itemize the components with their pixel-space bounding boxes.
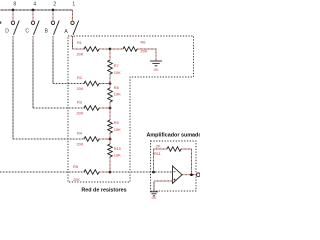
wire R9 leads bbox=[109, 108, 111, 139]
node 5 summing bbox=[109, 171, 112, 174]
node bus junction D bbox=[12, 9, 15, 12]
svg-text:20K: 20K bbox=[77, 111, 84, 116]
resistor R11 bbox=[167, 147, 181, 152]
wire R4 to node 4 bbox=[99, 138, 110, 140]
node bus junction C bbox=[32, 9, 35, 12]
svg-text:R1: R1 bbox=[77, 40, 82, 45]
wire bus to switch C bbox=[32, 10, 34, 21]
switch C bbox=[31, 21, 39, 35]
wire switch D down to row R4 bbox=[13, 36, 85, 139]
terminal output bbox=[197, 173, 201, 177]
svg-text:10K: 10K bbox=[114, 127, 121, 132]
node output bbox=[190, 173, 193, 176]
wire summing node to op-amp bbox=[110, 171, 173, 173]
wire feedback right bbox=[181, 149, 192, 175]
wire op-amp output bbox=[182, 174, 197, 176]
wire bus to switch D bbox=[12, 10, 14, 21]
enclosure Red de resistores bbox=[68, 36, 194, 182]
wire bus to switch B bbox=[52, 10, 54, 21]
svg-text:Amplificador sumador: Amplificador sumador bbox=[147, 133, 201, 139]
wire node1 to R6 bbox=[110, 48, 123, 50]
resistor R3 bbox=[84, 106, 99, 111]
svg-text:R6: R6 bbox=[141, 40, 146, 45]
svg-text:R8: R8 bbox=[114, 85, 119, 90]
wire R3 to node 3 bbox=[99, 107, 110, 109]
svg-text:10K: 10K bbox=[114, 92, 121, 97]
svg-text:D: D bbox=[5, 28, 9, 34]
enclosure Amplificador sumador bbox=[151, 141, 197, 191]
svg-text:R10: R10 bbox=[114, 146, 122, 151]
svg-text:R11: R11 bbox=[154, 151, 161, 156]
resistor R4 bbox=[84, 137, 99, 142]
svg-text:R9: R9 bbox=[114, 120, 119, 125]
wire feedback left bbox=[154, 149, 168, 172]
svg-text:R5: R5 bbox=[73, 164, 78, 169]
wire top bus bbox=[0, 9, 73, 11]
wire R1 to node 1 bbox=[99, 48, 110, 50]
resistor R2 bbox=[84, 81, 99, 86]
wire R8 leads bbox=[109, 84, 111, 109]
svg-text:R7: R7 bbox=[114, 63, 119, 68]
svg-text:R3: R3 bbox=[77, 100, 82, 105]
svg-text:Red de resistores: Red de resistores bbox=[81, 188, 126, 194]
svg-text:10K: 10K bbox=[114, 153, 121, 158]
svg-text:20K: 20K bbox=[77, 52, 84, 57]
wire switch B down to row R2 bbox=[53, 36, 85, 84]
resistor R10 bbox=[108, 144, 113, 157]
svg-text:R2: R2 bbox=[77, 75, 82, 80]
switch A bbox=[71, 21, 79, 35]
wire R2 to node 2 bbox=[99, 83, 110, 85]
ground GND2 bbox=[150, 192, 158, 196]
wire bus to switch A bbox=[72, 10, 74, 21]
svg-text:0V: 0V bbox=[152, 195, 157, 200]
node amp input bbox=[152, 171, 155, 174]
svg-text:20K: 20K bbox=[77, 86, 84, 91]
svg-text:R4: R4 bbox=[77, 131, 83, 136]
svg-text:4: 4 bbox=[33, 2, 36, 8]
wire non-inverting input to ground bbox=[154, 181, 173, 192]
svg-text:2: 2 bbox=[53, 2, 56, 8]
svg-text:2K: 2K bbox=[156, 144, 161, 149]
resistor R5 bbox=[84, 170, 99, 175]
wire switch A down to row R1 bbox=[73, 36, 86, 49]
wire switch C down to row R3 bbox=[33, 36, 85, 108]
resistor R8 bbox=[108, 88, 113, 102]
node 2 bbox=[109, 82, 112, 85]
resistor R6 bbox=[123, 47, 137, 52]
svg-text:20K: 20K bbox=[73, 177, 80, 182]
switch D bbox=[11, 21, 19, 35]
svg-text:10K: 10K bbox=[114, 70, 121, 75]
node 3 bbox=[109, 107, 112, 110]
svg-text:20K: 20K bbox=[77, 142, 84, 147]
resistor R1 bbox=[84, 47, 99, 52]
wire R10 leads bbox=[109, 139, 111, 172]
svg-text:0V: 0V bbox=[154, 67, 159, 72]
switch B bbox=[51, 21, 59, 35]
op-amp U1 bbox=[173, 166, 183, 184]
node 4 bbox=[109, 138, 112, 141]
svg-text:C: C bbox=[25, 28, 29, 34]
svg-text:8: 8 bbox=[13, 2, 16, 8]
wire R5 to node 5 bbox=[99, 171, 110, 173]
wire R6 to ground bbox=[137, 49, 156, 61]
svg-text:1: 1 bbox=[72, 2, 75, 8]
resistor R7 bbox=[108, 60, 113, 74]
wire R7 bottom lead bbox=[109, 74, 111, 84]
node bus junction B bbox=[52, 9, 55, 12]
ground GND1 bbox=[150, 61, 162, 66]
node 1 bbox=[109, 48, 112, 51]
wire Vref input row R5 bbox=[0, 171, 85, 173]
resistor R9 bbox=[108, 120, 113, 133]
wire R7 top lead bbox=[109, 49, 111, 60]
partial clipped switch at left edge bbox=[0, 22, 1, 24]
